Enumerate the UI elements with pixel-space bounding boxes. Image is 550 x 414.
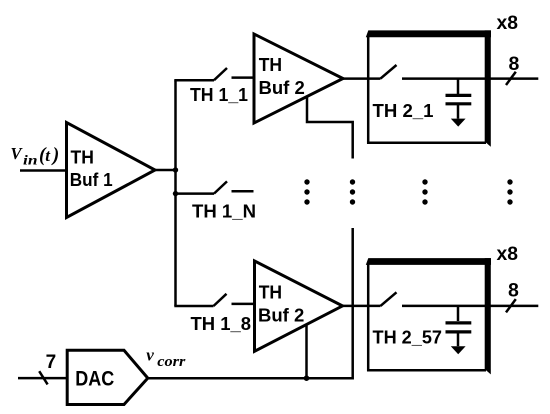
dots ellipsis column 1: [304, 179, 309, 204]
capacitor C1 bottom plate: [446, 102, 472, 105]
wire branch TH 1_N: [176, 192, 215, 195]
wire apex of Buf1 to bus: [155, 169, 177, 172]
capacitor C2 bottom plate: [446, 330, 472, 333]
slash bus-width 7: [39, 371, 47, 384]
wire vcorr tap from Buf2 bottom hypotenuse: [305, 324, 308, 378]
wire branch TH 1_8: [174, 305, 213, 308]
switch S1_N contact: [232, 190, 254, 193]
buffer U1 TH Buf 1: [67, 123, 156, 218]
switch S1_1 arm: [214, 68, 227, 80]
svg-text:Buf 2: Buf 2: [259, 77, 305, 98]
svg-text:Buf 2: Buf 2: [258, 305, 304, 326]
svg-text:7: 7: [46, 352, 57, 373]
svg-text:TH 2_1: TH 2_1: [373, 100, 434, 121]
wire vertical bus: [174, 80, 177, 306]
wire TH 2_57 output: [402, 305, 538, 308]
capacitor C2 stub: [457, 306, 460, 321]
junction dot bus-branch N: [173, 191, 178, 196]
box TH 2_57: [366, 258, 491, 374]
box TH 2_1: [366, 30, 491, 146]
svg-text:in: in: [23, 153, 38, 168]
buffer U3 TH Buf 2 bottom: [255, 261, 343, 351]
svg-text:Buf 1: Buf 1: [70, 169, 113, 190]
switch S1_N arm: [214, 181, 227, 193]
svg-text:x8: x8: [497, 243, 519, 265]
svg-text:8: 8: [509, 53, 520, 75]
svg-text:TH 1_1: TH 1_1: [190, 84, 248, 105]
svg-text:TH 1_N: TH 1_N: [192, 201, 256, 222]
wire Buf2 bottom input: [254, 303, 255, 306]
switch S1_8 arm: [214, 294, 227, 306]
svg-text:TH 1_8: TH 1_8: [191, 313, 252, 334]
label Vin(t): [11, 144, 60, 168]
junction dot vcorr tap: [304, 375, 310, 381]
ground G2: [451, 346, 466, 354]
switch S1_8 contact: [232, 303, 254, 306]
svg-text:DAC: DAC: [75, 368, 114, 391]
svg-text:): ): [51, 145, 60, 166]
label vcorr: [146, 346, 185, 371]
svg-text:x8: x8: [497, 12, 519, 34]
svg-text:TH: TH: [259, 54, 282, 75]
wire DAC input: [18, 377, 67, 380]
wire vcorr vertical bus lower: [351, 228, 352, 378]
wire Buf2 bottom output into box: [343, 305, 381, 308]
capacitor C1 stub: [457, 79, 460, 94]
svg-text:TH 2_57: TH 2_57: [373, 327, 443, 348]
capacitor C1 lower stub: [457, 105, 460, 119]
svg-text:corr: corr: [157, 354, 185, 370]
DAC block: [67, 350, 148, 404]
switch S2_1 arm: [381, 65, 397, 79]
switch S2_57 arm: [381, 292, 397, 306]
dots ellipsis column 4: [507, 179, 512, 204]
dots ellipsis column 2: [350, 179, 355, 204]
capacitor C1 top plate: [446, 94, 472, 97]
switch S1_1 contact: [232, 76, 254, 79]
slash bus-width 8 bottom: [506, 299, 516, 312]
wire branch TH 1_1: [174, 79, 214, 82]
junction dot bus-apex: [173, 167, 178, 172]
wire Buf2 top output into box: [343, 77, 381, 80]
wire TH 2_1 output: [402, 77, 538, 80]
capacitor C2 top plate: [446, 321, 472, 324]
node Vin input wire: [20, 169, 67, 172]
ground G1: [451, 119, 466, 127]
capacitor C2 lower stub: [457, 333, 460, 346]
wire vcorr step from Buf2 top hypotenuse: [307, 97, 353, 159]
slash bus-width 8 top: [506, 72, 516, 85]
buffer U2 TH Buf 2 top: [254, 34, 343, 123]
svg-text:8: 8: [508, 279, 519, 301]
svg-text:TH: TH: [71, 146, 94, 167]
dots ellipsis column 3: [422, 179, 427, 204]
svg-text:TH: TH: [259, 281, 282, 302]
wire vcorr horizontal: [148, 377, 353, 380]
svg-text:v: v: [146, 346, 154, 365]
